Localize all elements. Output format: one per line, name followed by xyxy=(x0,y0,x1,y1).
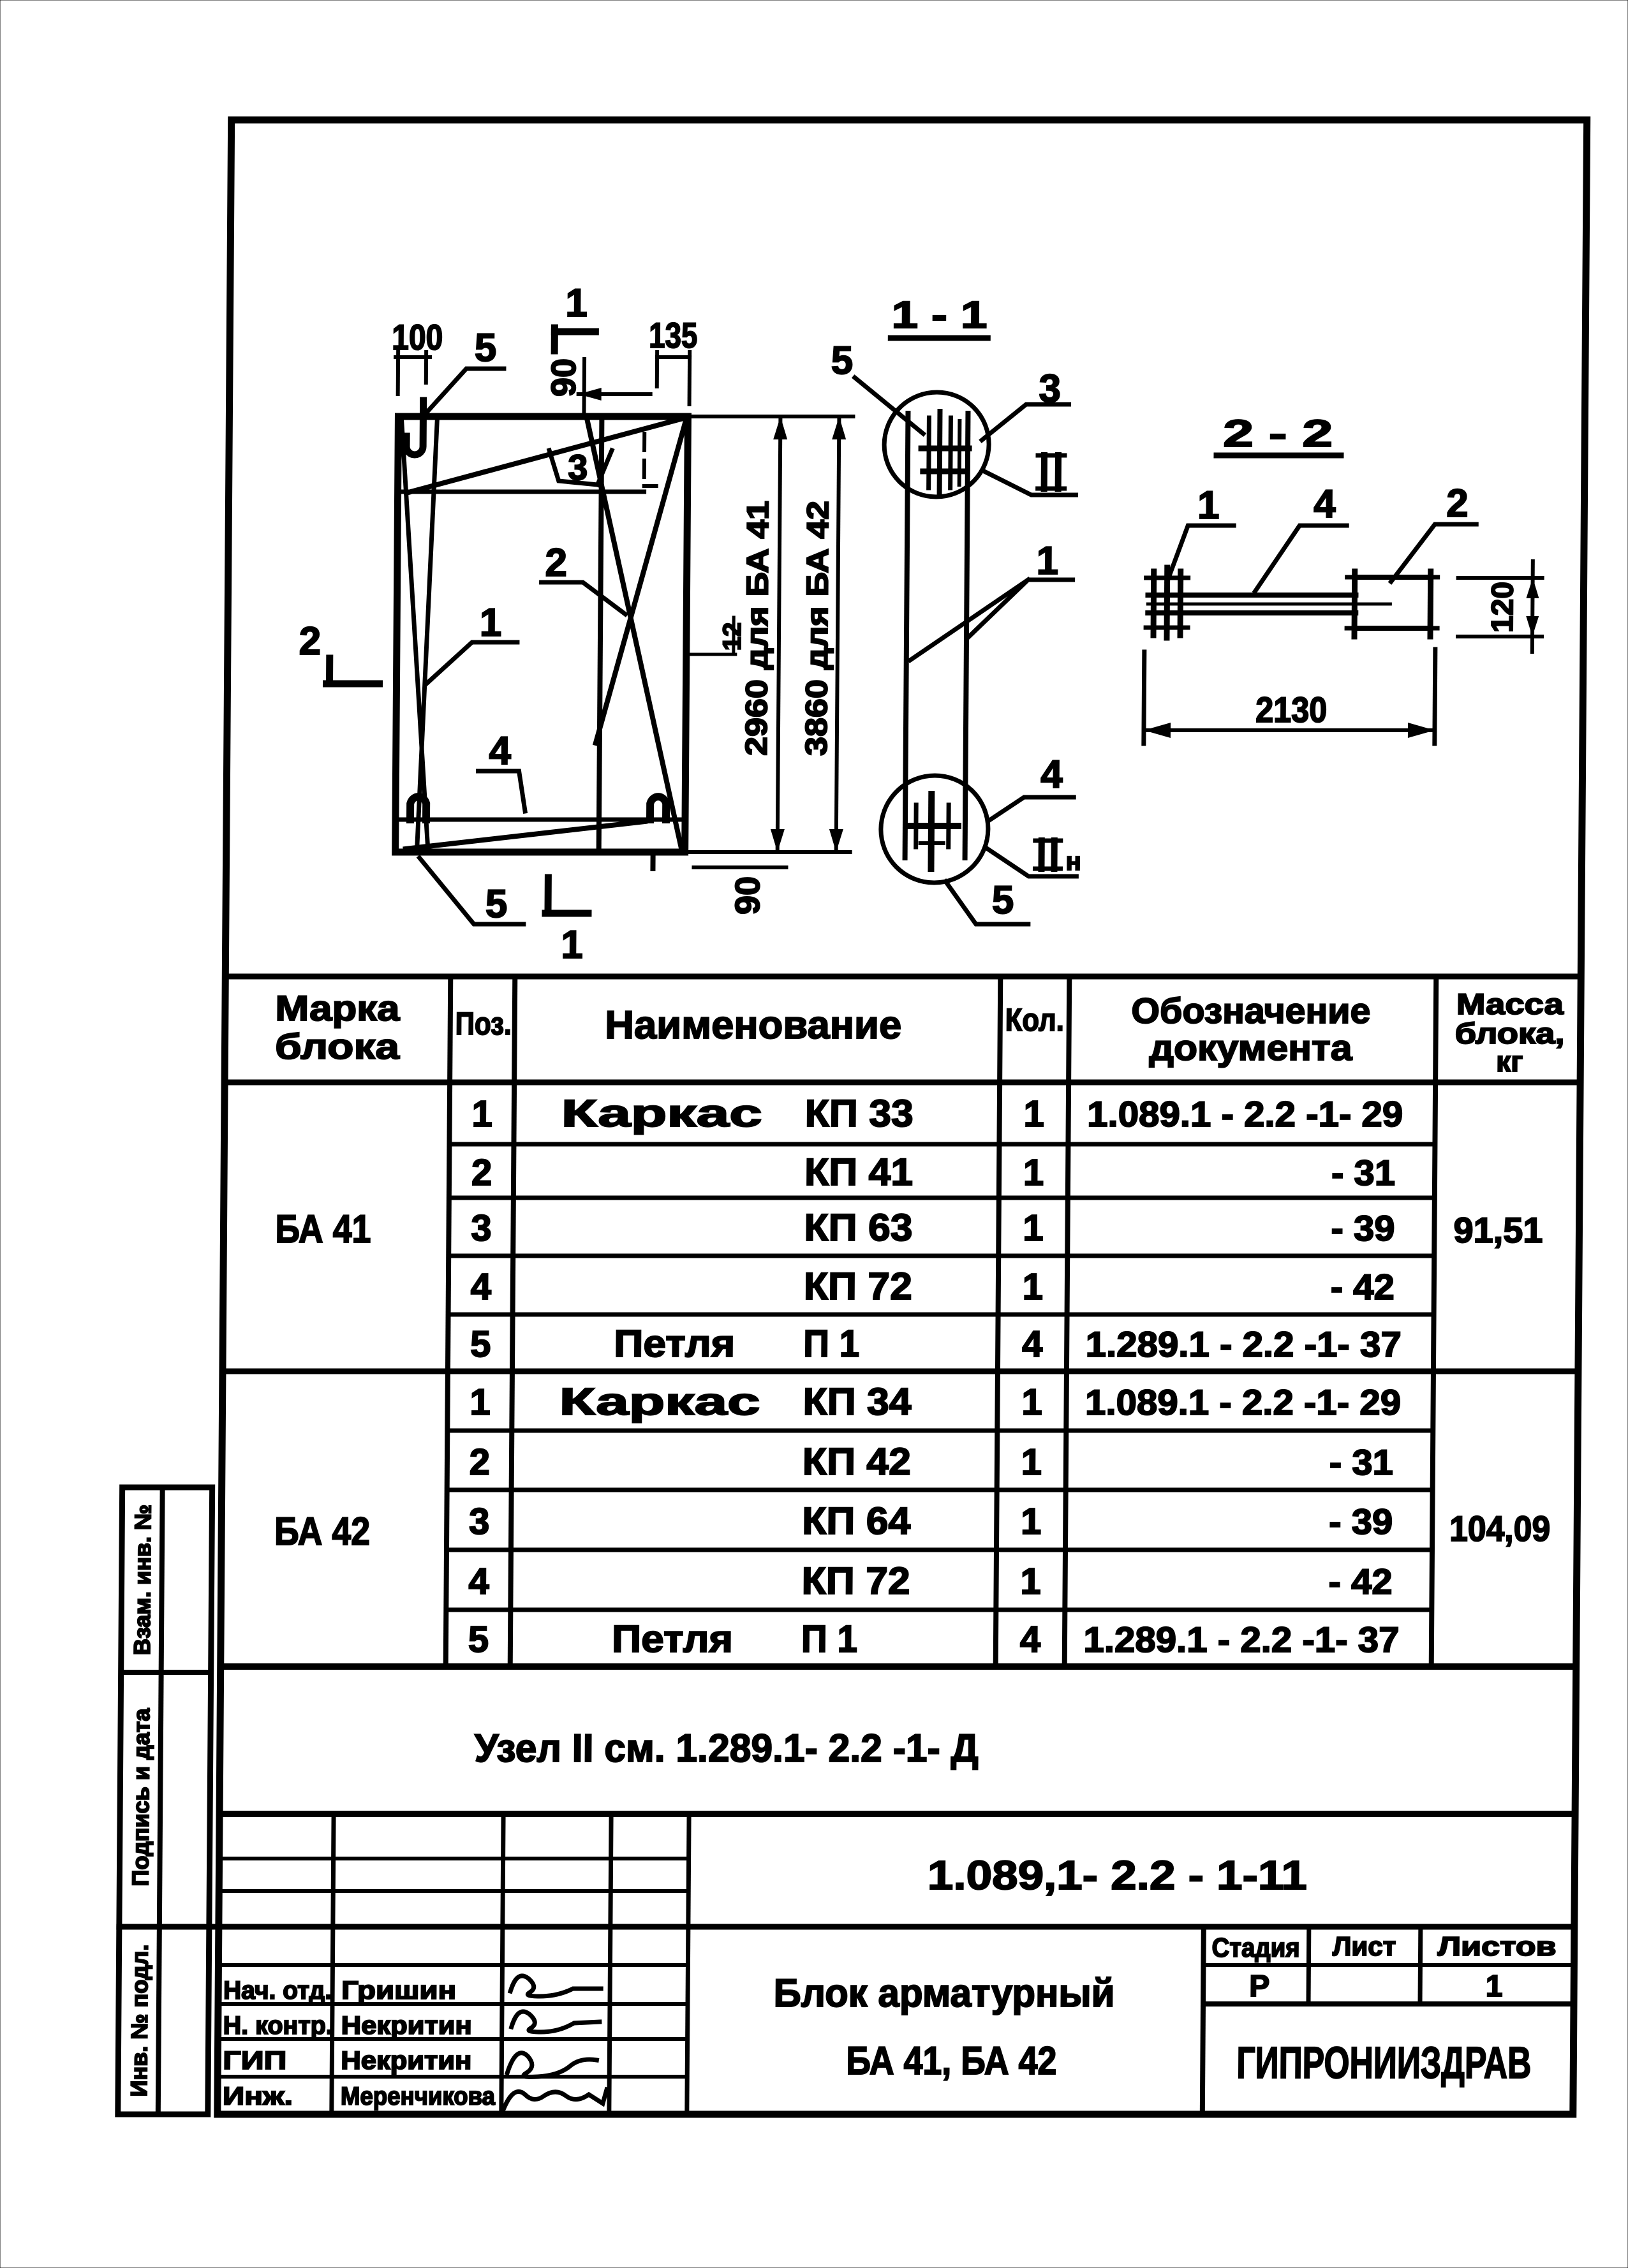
svg-text:Блок арматурный: Блок арматурный xyxy=(773,1971,1114,2015)
svg-text:- 31: - 31 xyxy=(1331,1152,1395,1193)
svg-text:- 42: - 42 xyxy=(1331,1267,1395,1307)
spec table bottom xyxy=(221,1663,1576,1670)
svg-text:- 39: - 39 xyxy=(1329,1501,1393,1542)
node circle bottom xyxy=(880,776,988,883)
dim line 2960 xyxy=(778,416,781,852)
svg-text:1.289.1 - 2.2 -1- 37: 1.289.1 - 2.2 -1- 37 xyxy=(1086,1324,1402,1364)
svg-text:КП 33: КП 33 xyxy=(805,1092,914,1135)
svg-text:120: 120 xyxy=(1486,582,1520,633)
table column line xyxy=(996,976,1001,1667)
loop П5 bottom-left xyxy=(410,797,426,820)
row line xyxy=(448,1254,1434,1258)
svg-text:2: 2 xyxy=(545,541,567,585)
svg-text:1: 1 xyxy=(1023,1207,1044,1249)
svg-text:Каркас: Каркас xyxy=(561,1092,762,1135)
svg-text:кг: кг xyxy=(1496,1045,1523,1078)
svg-text:1: 1 xyxy=(471,1093,492,1135)
row line xyxy=(447,1488,1433,1492)
svg-text:4: 4 xyxy=(489,729,511,773)
svg-text:4: 4 xyxy=(471,1266,492,1307)
height dim extension lines xyxy=(690,415,853,418)
svg-text:3860 для БА 42: 3860 для БА 42 xyxy=(800,501,836,756)
svg-text:Петля: Петля xyxy=(614,1322,735,1365)
svg-text:Инж.: Инж. xyxy=(223,2082,293,2110)
svg-text:1.089.1 - 2.2 -1- 29: 1.089.1 - 2.2 -1- 29 xyxy=(1085,1382,1401,1422)
row line xyxy=(446,1608,1432,1612)
svg-text:1: 1 xyxy=(565,281,588,325)
svg-text:Некритин: Некритин xyxy=(341,2047,471,2075)
svg-text:ГИПРОНИИЗДРАВ: ГИПРОНИИЗДРАВ xyxy=(1236,2038,1532,2088)
2-2 member bars xyxy=(1148,593,1356,598)
svg-text:- 31: - 31 xyxy=(1329,1442,1393,1482)
svg-text:ГИП: ГИП xyxy=(223,2047,286,2075)
svg-text:1: 1 xyxy=(1036,539,1058,583)
svg-text:Подпись и дата: Подпись и дата xyxy=(127,1708,154,1887)
svg-text:1.089.1 - 2.2 -1- 29: 1.089.1 - 2.2 -1- 29 xyxy=(1087,1094,1403,1134)
svg-text:1 - 1: 1 - 1 xyxy=(891,293,987,336)
svg-text:5: 5 xyxy=(470,1323,491,1365)
svg-text:Стадия: Стадия xyxy=(1211,1933,1299,1962)
dim 2130 xyxy=(1144,652,1144,744)
elevation: top strip diagonal xyxy=(406,418,686,493)
svg-text:91,51: 91,51 xyxy=(1453,1210,1543,1250)
svg-text:1: 1 xyxy=(1197,483,1220,527)
svg-text:Каркас: Каркас xyxy=(559,1380,760,1423)
row line xyxy=(449,1196,1435,1200)
svg-text:КП 42: КП 42 xyxy=(803,1440,911,1483)
elevation: top inner horizontal xyxy=(398,490,644,494)
node hash bottom xyxy=(907,823,958,829)
left anchor hash xyxy=(1151,571,1157,635)
svg-text:2: 2 xyxy=(470,1441,491,1483)
svg-text:5: 5 xyxy=(475,326,497,370)
svg-text:Р: Р xyxy=(1249,1970,1269,2003)
elevation: left chord line b xyxy=(417,418,438,848)
svg-text:Н. контр.: Н. контр. xyxy=(223,2012,333,2040)
node hash top xyxy=(926,418,931,488)
label II xyxy=(1041,455,1047,489)
svg-text:4: 4 xyxy=(1020,1619,1041,1660)
svg-text:Марка: Марка xyxy=(275,988,400,1028)
svg-text:Некритин: Некритин xyxy=(341,2012,472,2040)
svg-text:1.089,1- 2.2 - 1-11: 1.089,1- 2.2 - 1-11 xyxy=(928,1852,1308,1898)
table column line xyxy=(446,976,451,1667)
elevation: bottom strip diagonal xyxy=(406,821,645,849)
loop П5 bottom-right xyxy=(650,797,666,820)
spec table header bottom xyxy=(225,1080,1580,1086)
svg-text:Наименование: Наименование xyxy=(605,1003,901,1047)
svg-text:Поз.: Поз. xyxy=(455,1006,512,1042)
svg-text:- 39: - 39 xyxy=(1331,1208,1395,1248)
node circle top xyxy=(884,392,989,497)
table column line xyxy=(510,976,515,1667)
svg-text:1.289.1 - 2.2 -1- 37: 1.289.1 - 2.2 -1- 37 xyxy=(1083,1619,1399,1660)
title block top line xyxy=(219,1811,1575,1817)
table column line xyxy=(1065,976,1070,1667)
svg-text:документа: документа xyxy=(1149,1027,1352,1068)
strip divider Взам/Подпись xyxy=(121,1670,211,1675)
svg-text:блока: блока xyxy=(275,1026,400,1066)
title block line y3021 xyxy=(119,1924,1574,1930)
svg-text:5: 5 xyxy=(831,339,854,383)
svg-text:1: 1 xyxy=(1020,1561,1041,1602)
svg-text:4: 4 xyxy=(468,1561,489,1602)
svg-text:2: 2 xyxy=(1446,482,1469,526)
svg-text:КП 64: КП 64 xyxy=(802,1499,911,1542)
stage table xyxy=(1202,1927,1204,2114)
group divider xyxy=(223,1369,1578,1374)
svg-text:135: 135 xyxy=(649,315,697,355)
svg-text:1: 1 xyxy=(470,1381,491,1423)
table column line xyxy=(1432,976,1437,1667)
svg-text:П 1: П 1 xyxy=(803,1322,859,1365)
svg-text:КП 41: КП 41 xyxy=(804,1151,913,1193)
svg-text:КП 72: КП 72 xyxy=(801,1559,910,1602)
elevation: right chord vertical xyxy=(599,416,602,852)
svg-text:2 - 2: 2 - 2 xyxy=(1223,412,1333,455)
svg-text:Узел II см. 1.289.1- 2.2 -1: Узел II см. 1.289.1- 2.2 -1- Д xyxy=(475,1727,979,1771)
left margin strip outline xyxy=(118,1487,212,2114)
stamp row lines xyxy=(219,1857,689,1860)
svg-text:Меренчикова: Меренчикова xyxy=(341,2082,496,2110)
svg-text:1: 1 xyxy=(561,923,583,967)
stamp column lines xyxy=(332,1814,334,2114)
loop П5 top-left xyxy=(406,401,424,455)
svg-text:1: 1 xyxy=(1021,1501,1042,1542)
svg-text:- 42: - 42 xyxy=(1328,1561,1392,1602)
svg-text:1: 1 xyxy=(1023,1266,1044,1307)
elevation: long diagonal 2a xyxy=(584,420,685,850)
svg-text:БА 41: БА 41 xyxy=(275,1207,371,1251)
svg-text:БА 41, БА 42: БА 41, БА 42 xyxy=(846,2039,1056,2083)
row line xyxy=(449,1142,1435,1147)
svg-text:3: 3 xyxy=(469,1501,490,1542)
svg-text:2: 2 xyxy=(299,619,321,663)
svg-text:4: 4 xyxy=(1022,1323,1043,1365)
svg-text:Инв. № подл.: Инв. № подл. xyxy=(126,1945,153,2097)
svg-text:1: 1 xyxy=(1023,1152,1044,1193)
section mark 1 bottom xyxy=(544,878,551,913)
svg-text:2: 2 xyxy=(471,1152,492,1193)
svg-text:5: 5 xyxy=(468,1619,489,1660)
svg-text:1: 1 xyxy=(1023,1093,1044,1135)
dim line 3860 xyxy=(836,416,840,852)
svg-text:БА 42: БА 42 xyxy=(274,1510,370,1554)
spec table top line xyxy=(225,974,1581,980)
svg-text:н: н xyxy=(1065,848,1081,876)
signature squiggle 1 xyxy=(510,1976,601,1996)
label IIн xyxy=(1038,841,1044,869)
svg-text:КП 63: КП 63 xyxy=(804,1206,912,1249)
svg-text:Нач. отд.: Нач. отд. xyxy=(223,1977,332,2005)
elevation: bottom inner horizontal xyxy=(396,818,684,822)
svg-text:П 1: П 1 xyxy=(801,1617,857,1660)
svg-text:КП 34: КП 34 xyxy=(803,1380,912,1423)
elevation: long diagonal 2b xyxy=(596,420,686,743)
row line xyxy=(447,1548,1432,1552)
svg-text:Обозначение: Обозначение xyxy=(1131,990,1370,1031)
1-1 member verticals xyxy=(905,413,908,858)
elevation: hidden edge dashed xyxy=(642,434,647,486)
right end plate xyxy=(1354,577,1431,628)
svg-text:90: 90 xyxy=(729,876,767,915)
strip divider Подпись/Инв xyxy=(119,1924,209,1929)
svg-text:Петля: Петля xyxy=(612,1617,733,1660)
svg-text:1: 1 xyxy=(1021,1441,1042,1483)
svg-text:1: 1 xyxy=(1486,1970,1503,2003)
signature squiggle 4 xyxy=(503,2089,607,2110)
svg-text:Листов: Листов xyxy=(1437,1931,1556,1961)
svg-text:90: 90 xyxy=(545,358,583,397)
row line xyxy=(447,1429,1433,1433)
svg-text:КП 72: КП 72 xyxy=(804,1265,912,1307)
svg-text:2130: 2130 xyxy=(1255,689,1327,730)
signature squiggle 3 xyxy=(507,2053,596,2077)
svg-text:3: 3 xyxy=(471,1207,492,1249)
svg-text:Кол.: Кол. xyxy=(1005,1002,1064,1038)
signature squiggle 2 xyxy=(512,2012,600,2032)
dim 120 xyxy=(1458,576,1543,580)
elevation: left chord line a xyxy=(399,418,431,848)
svg-text:Лист: Лист xyxy=(1333,1931,1396,1961)
elevation: block outline xyxy=(396,416,688,852)
svg-text:4: 4 xyxy=(1313,482,1336,526)
svg-text:Масса: Масса xyxy=(1456,987,1564,1020)
svg-text:5: 5 xyxy=(485,882,508,926)
svg-text:1: 1 xyxy=(480,601,502,645)
row line xyxy=(448,1313,1434,1317)
svg-text:Взам. инв. №: Взам. инв. № xyxy=(129,1505,156,1655)
svg-text:Гришин: Гришин xyxy=(341,1977,456,2005)
svg-text:5: 5 xyxy=(992,878,1014,922)
sheet border frame xyxy=(218,120,1587,2114)
svg-text:4: 4 xyxy=(1040,753,1063,797)
svg-text:1: 1 xyxy=(1021,1381,1042,1423)
svg-text:104,09: 104,09 xyxy=(1449,1508,1550,1549)
